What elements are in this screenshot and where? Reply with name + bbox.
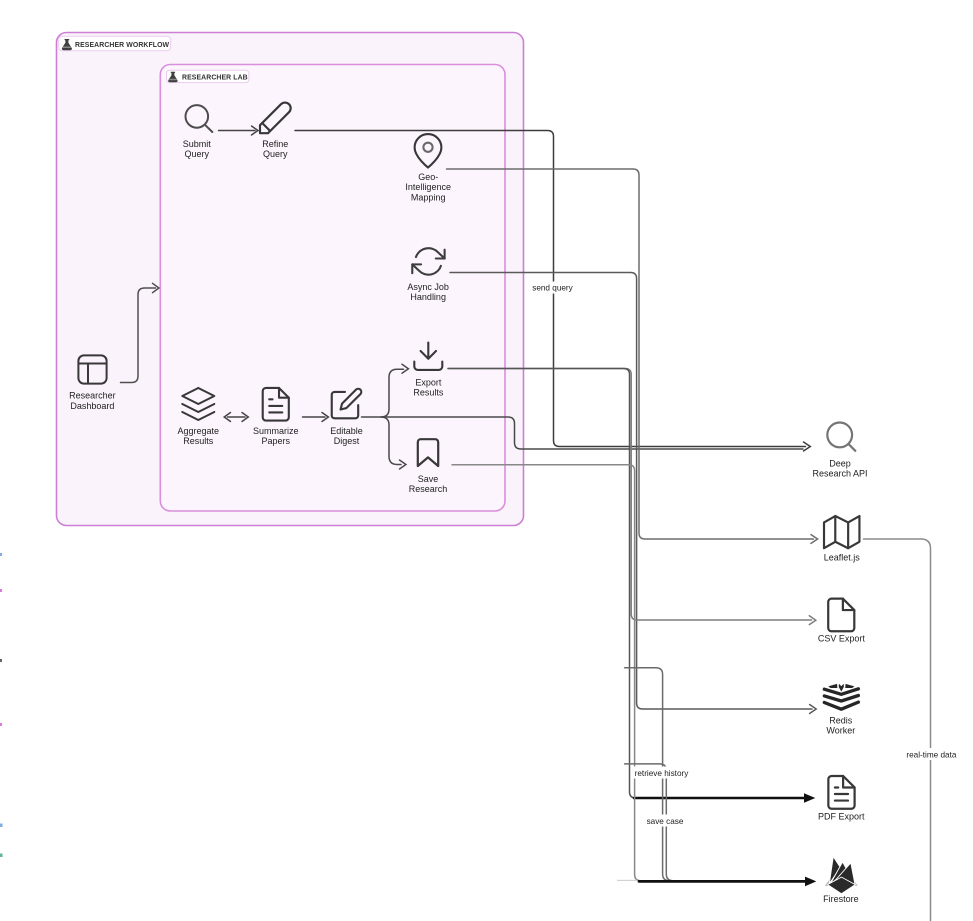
wire Leaflet.js real-time data (offscreen): [864, 539, 931, 921]
wire Firestore black arrow: [639, 880, 806, 883]
label real-time data: [904, 748, 959, 760]
node Aggregate Results (stack icon): [182, 388, 214, 420]
wire Researcher Dashboard to Researcher Lab: [121, 288, 156, 383]
svg-text:send query: send query: [532, 284, 573, 293]
wire jog save case: [625, 764, 674, 881]
node Editable Digest (edit icon): [332, 389, 362, 419]
svg-text:Submit: Submit: [183, 139, 212, 149]
wire Refine Query to Deep Research API (send query): [295, 131, 806, 447]
node Summarize Papers (file-text icon): [263, 388, 289, 421]
svg-text:Results: Results: [183, 436, 214, 446]
node CSV Export (file icon): [828, 599, 854, 632]
workflow label pill: [59, 36, 171, 50]
node Submit Query (magnifier icon): [186, 105, 213, 132]
svg-text:Leaflet.js: Leaflet.js: [824, 552, 861, 562]
svg-text:Firestore: Firestore: [823, 894, 859, 904]
svg-text:Researcher: Researcher: [69, 391, 116, 401]
svg-text:Papers: Papers: [262, 436, 291, 446]
svg-text:Digest: Digest: [334, 436, 360, 446]
svg-text:CSV Export: CSV Export: [818, 634, 866, 644]
wire Aggregate Results to Summarize Papers (bidirectional): [228, 416, 246, 418]
wire Save Research to Firestore: [452, 465, 641, 881]
node Export Results (download icon): [414, 343, 442, 370]
svg-text:Results: Results: [413, 388, 444, 398]
svg-text:Aggregate: Aggregate: [178, 426, 220, 436]
svg-text:real-time data: real-time data: [906, 750, 957, 759]
flask icon lab: [168, 72, 178, 82]
node Save Research (bookmark icon): [418, 439, 438, 466]
svg-text:Query: Query: [185, 149, 210, 159]
svg-text:Export: Export: [415, 377, 442, 387]
svg-text:Mapping: Mapping: [411, 192, 446, 202]
node Leaflet.js (map icon): [824, 516, 859, 548]
node Researcher Dashboard (layout icon): [78, 355, 106, 383]
svg-text:Handling: Handling: [410, 292, 446, 302]
node Redis Worker (redis stack icon): [824, 689, 858, 709]
subgraph RESEARCHER LAB: [160, 65, 505, 512]
lab label pill: [167, 70, 249, 82]
svg-text:Refine: Refine: [262, 139, 288, 149]
wire Summarize Papers to Editable Digest: [303, 416, 326, 418]
svg-text:Intelligence: Intelligence: [405, 182, 451, 192]
svg-text:Research API: Research API: [812, 469, 867, 479]
wire faint stub: [618, 879, 638, 881]
wire Export Results to PDF Export (vertical): [448, 369, 636, 799]
wire Editable Digest to Export Results: [381, 369, 404, 417]
wire Editable Digest to Save Research: [381, 417, 401, 465]
svg-text:retrieve history: retrieve history: [635, 769, 690, 778]
svg-text:Research: Research: [409, 484, 448, 494]
svg-text:PDF Export: PDF Export: [818, 812, 865, 822]
flask icon workflow: [62, 39, 72, 50]
subgraph RESEARCHER WORKFLOW: [57, 33, 524, 526]
wire Export Results to CSV Export: [448, 369, 812, 621]
wire jog retrieve history: [625, 668, 670, 881]
svg-text:Geo-: Geo-: [418, 172, 438, 182]
svg-text:RESEARCHER LAB: RESEARCHER LAB: [182, 75, 248, 82]
wire Submit Query to Refine Query: [219, 130, 256, 132]
node PDF Export (file-text icon): [828, 776, 854, 809]
label save case: [645, 815, 685, 827]
node Firestore (firebase icon): [825, 879, 858, 887]
label send query: [530, 282, 576, 294]
label retrieve history: [632, 767, 691, 779]
wire Async Job Handling to Redis Worker: [450, 273, 812, 710]
node Refine Query (pencil icon): [260, 103, 291, 134]
svg-text:Save: Save: [418, 474, 439, 484]
svg-text:Redis: Redis: [829, 715, 853, 725]
node Async Job Handling (refresh icon): [412, 248, 444, 274]
left edge cut-off marks: [0, 553, 2, 556]
node Deep Research API (magnifier icon): [827, 423, 855, 451]
svg-text:Deep: Deep: [829, 458, 851, 468]
svg-text:Summarize: Summarize: [253, 426, 299, 436]
wire Editable Digest to Deep Research API: [362, 417, 804, 449]
svg-text:save case: save case: [647, 817, 684, 826]
wire Geo-Intelligence Mapping to Leaflet.js: [447, 169, 814, 539]
svg-text:Dashboard: Dashboard: [70, 401, 114, 411]
svg-text:Worker: Worker: [826, 726, 855, 736]
svg-text:Editable: Editable: [330, 426, 363, 436]
svg-text:RESEARCHER WORKFLOW: RESEARCHER WORKFLOW: [75, 42, 170, 49]
svg-text:Query: Query: [263, 149, 288, 159]
svg-text:Async Job: Async Job: [407, 282, 449, 292]
wire PDF Export black arrow: [634, 797, 805, 800]
node Geo-Intelligence Mapping (map pin icon): [415, 134, 442, 167]
